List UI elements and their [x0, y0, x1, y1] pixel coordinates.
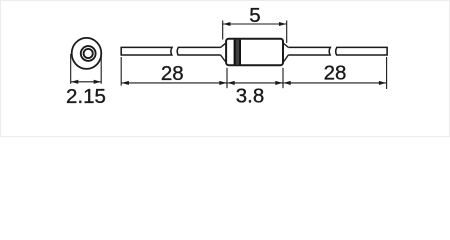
svg-text:28: 28 — [161, 62, 184, 85]
svg-text:2.15: 2.15 — [66, 85, 106, 108]
svg-text:28: 28 — [324, 61, 347, 84]
svg-text:3.8: 3.8 — [236, 85, 265, 108]
svg-text:5: 5 — [249, 4, 260, 27]
